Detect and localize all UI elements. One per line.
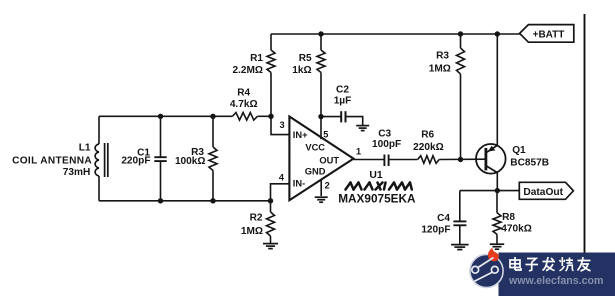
svg-text:1: 1 [356,147,361,157]
svg-text:www.elecfans.com: www.elecfans.com [508,275,603,287]
svg-text:R6: R6 [421,129,434,140]
svg-text:100kΩ: 100kΩ [175,156,206,167]
svg-text:5: 5 [323,130,328,140]
svg-text:MAX9075EKA: MAX9075EKA [338,191,416,205]
svg-text:470kΩ: 470kΩ [501,223,532,234]
svg-text:+BATT: +BATT [533,29,565,40]
svg-text:R2: R2 [250,213,263,224]
svg-text:1MΩ: 1MΩ [241,226,263,237]
svg-text:4: 4 [279,172,285,182]
svg-text:1MΩ: 1MΩ [429,64,451,75]
svg-text:DataOut: DataOut [523,187,563,198]
svg-text:4.7kΩ: 4.7kΩ [230,99,258,110]
svg-text:IN-: IN- [293,179,305,189]
svg-text:GND: GND [305,166,326,176]
svg-text:U1: U1 [369,170,383,181]
svg-text:BC857B: BC857B [510,157,549,168]
svg-text:120pF: 120pF [421,225,450,236]
svg-text:OUT: OUT [319,156,339,166]
svg-text:R4: R4 [237,88,250,99]
svg-text:L1: L1 [79,143,91,154]
svg-text:C2: C2 [336,85,349,96]
svg-text:100pF: 100pF [372,139,401,150]
svg-text:R3: R3 [436,50,449,61]
svg-text:220kΩ: 220kΩ [413,142,444,153]
svg-text:R1: R1 [250,53,263,64]
svg-text:73mH: 73mH [63,167,91,178]
svg-text:220pF: 220pF [121,156,150,167]
svg-text:2: 2 [325,181,330,191]
svg-text:VCC: VCC [305,143,325,153]
svg-text:1µF: 1µF [334,96,352,107]
svg-text:3: 3 [279,120,284,130]
svg-text:IN+: IN+ [293,130,308,140]
svg-text:R8: R8 [502,212,515,223]
svg-text:COIL ANTENNA: COIL ANTENNA [12,155,92,166]
svg-text:R5: R5 [299,53,312,64]
svg-text:C3: C3 [378,129,391,140]
svg-text:1kΩ: 1kΩ [292,65,311,76]
svg-text:Q1: Q1 [512,145,526,156]
svg-text:C4: C4 [437,213,450,224]
svg-text:2.2MΩ: 2.2MΩ [232,65,263,76]
